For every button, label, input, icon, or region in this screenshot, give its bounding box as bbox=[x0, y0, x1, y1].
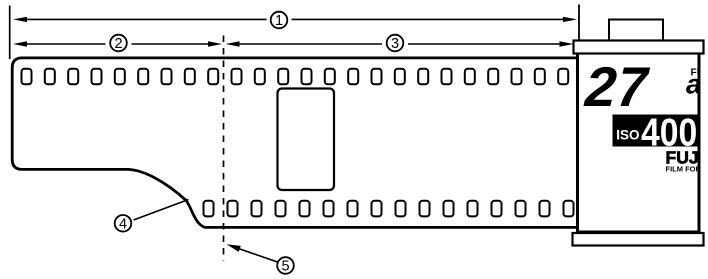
label 4 leader line bbox=[134, 200, 189, 221]
svg-text:2: 2 bbox=[114, 36, 122, 52]
dashed cut line bbox=[223, 36, 225, 262]
right extension tick bbox=[578, 5, 580, 41]
circled label 1 bbox=[271, 12, 288, 29]
circled label 3 bbox=[387, 35, 404, 52]
arrowhead 1 right bbox=[563, 17, 577, 22]
svg-text:ISO: ISO bbox=[616, 128, 639, 143]
circled label 2 bbox=[110, 35, 127, 52]
label 5 arrowhead bbox=[225, 241, 240, 252]
svg-text:5: 5 bbox=[281, 259, 289, 275]
arrowhead 3 left bbox=[226, 41, 240, 46]
dimension arrow 1 line bbox=[24, 18, 564, 20]
dimension arrow 2 line bbox=[24, 43, 209, 45]
bottom sprocket holes row bbox=[204, 201, 574, 217]
canister spool knob bbox=[609, 20, 663, 41]
ISO band bbox=[613, 115, 699, 147]
circled label 5 bbox=[277, 257, 294, 274]
svg-text:1: 1 bbox=[275, 13, 283, 29]
dimension arrow 3 line bbox=[239, 43, 560, 45]
label 5 arrow line bbox=[234, 247, 278, 262]
svg-text:4: 4 bbox=[119, 217, 127, 233]
arrowhead 2 right bbox=[208, 41, 222, 46]
canister top lip bbox=[574, 41, 704, 54]
circled label 4 bbox=[115, 215, 132, 232]
svg-text:3: 3 bbox=[391, 36, 399, 52]
exposure frame rectangle bbox=[278, 89, 335, 191]
arrowhead 3 right bbox=[560, 41, 574, 46]
film strip outline with leader tongue bbox=[12, 58, 580, 228]
top sprocket holes row bbox=[22, 69, 569, 85]
left extension tick bbox=[9, 6, 11, 60]
arrowhead 2 left bbox=[13, 41, 27, 46]
arrowhead 1 left bbox=[13, 17, 27, 22]
canister body bbox=[578, 53, 700, 232]
svg-text:FILM FOR: FILM FOR bbox=[666, 165, 702, 174]
canister bottom lip bbox=[573, 233, 704, 246]
